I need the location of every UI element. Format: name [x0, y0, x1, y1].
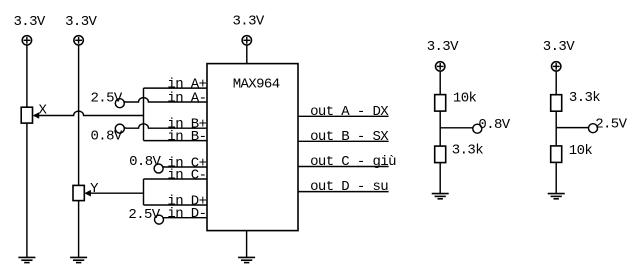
wire 2.5V to in D-: [163, 217, 207, 219]
wire in C-: [144, 178, 208, 180]
wire supply2 to pot Y top: [78, 45, 80, 186]
svg-text:3.3V: 3.3V: [65, 14, 97, 30]
node CD junction vertical: [143, 179, 145, 205]
wire divider2 top: [555, 71, 557, 95]
wire R2 to ground: [439, 163, 441, 194]
svg-text:2.5V: 2.5V: [595, 117, 627, 133]
wire R1 to R2: [439, 111, 441, 146]
wire IC GND pin: [246, 231, 248, 258]
potentiometer Y wiper arrow: [84, 190, 91, 197]
power symbol VCC IC: [242, 36, 251, 45]
wire in B-: [144, 140, 208, 142]
wire in D+: [144, 204, 208, 206]
ground (divider 1): [432, 194, 449, 199]
power symbol VCC divider2: [552, 62, 561, 71]
svg-text:3.3V: 3.3V: [233, 14, 265, 30]
wire R3 to R4: [555, 111, 557, 146]
wire divider1 top: [439, 71, 441, 95]
ground (supply 2 branch): [70, 257, 87, 262]
terminal 0.8V (divider 1 output): [473, 117, 511, 133]
op-amp IC U1 MAX964 body: [207, 64, 298, 231]
power symbol VCC divider1: [436, 62, 445, 71]
resistor R2 3.3k: [435, 146, 446, 163]
potentiometer X body: [21, 107, 32, 123]
wire R4 to ground: [555, 162, 557, 193]
wire X wiper to AB junction (hop over supply2 line): [39, 111, 144, 115]
power symbol VCC1: [22, 36, 31, 45]
svg-text:Y: Y: [90, 181, 99, 197]
svg-text:in B-: in B-: [167, 129, 206, 145]
wire pot X bottom to ground: [26, 123, 28, 257]
terminal 2.5V (divider 2 output): [589, 117, 628, 133]
wire out D: [298, 191, 389, 193]
svg-text:0.8V: 0.8V: [478, 117, 510, 133]
svg-text:10k: 10k: [453, 91, 477, 107]
svg-text:3.3V: 3.3V: [14, 14, 46, 30]
wire 2.5V to in A- (hop over AB junction): [124, 98, 207, 102]
ground (IC): [238, 257, 255, 262]
wire out C: [298, 166, 389, 168]
svg-text:MAX964: MAX964: [233, 77, 280, 93]
wire divider2 tap: [556, 127, 588, 129]
svg-text:in C-: in C-: [167, 168, 206, 184]
resistor R4 10k: [551, 146, 562, 163]
svg-text:3.3k: 3.3k: [569, 90, 600, 106]
svg-text:2.5V: 2.5V: [128, 207, 160, 223]
terminal 2.5V (in D-): [128, 207, 163, 224]
node AB junction vertical: [143, 88, 145, 141]
resistor R3 3.3k: [551, 95, 562, 112]
wire in A+: [144, 87, 208, 89]
svg-text:3.3V: 3.3V: [427, 39, 459, 55]
wire Y wiper to CD junction: [90, 192, 143, 194]
svg-text:3.3V: 3.3V: [543, 39, 575, 55]
terminal 2.5V (in A-): [91, 90, 125, 107]
svg-text:in D-: in D-: [167, 206, 206, 222]
svg-text:out D - su: out D - su: [310, 179, 388, 195]
potentiometer X wiper arrow: [33, 112, 40, 119]
potentiometer Y body: [73, 185, 84, 200]
ground (supply 1 branch): [18, 257, 35, 262]
svg-text:10k: 10k: [569, 143, 593, 159]
ground (divider 2): [548, 194, 565, 199]
wire divider1 tap: [440, 127, 473, 129]
svg-text:out B - SX: out B - SX: [310, 129, 389, 145]
wire 0.8V to in B+ (hop over AB junction): [124, 124, 207, 128]
wire pot Y bottom to ground: [78, 201, 80, 258]
wire supply1 to pot X top: [26, 45, 28, 107]
wire 0.8V to in C+: [163, 166, 207, 168]
svg-text:3.3k: 3.3k: [452, 143, 483, 159]
terminal 0.8V (in C+): [129, 154, 163, 173]
svg-text:in A-: in A-: [167, 91, 206, 107]
wire IC VCC pin: [246, 45, 248, 64]
resistor R1 10k: [435, 95, 446, 112]
svg-text:out C - giù: out C - giù: [310, 154, 396, 170]
terminal 0.8V (in B+): [91, 124, 125, 144]
svg-text:out A - DX: out A - DX: [310, 104, 389, 120]
svg-text:0.8V: 0.8V: [91, 129, 123, 145]
wire out B: [298, 140, 389, 142]
wire out A: [298, 115, 389, 117]
svg-text:0.8V: 0.8V: [129, 154, 161, 170]
power symbol VCC2: [74, 36, 83, 45]
